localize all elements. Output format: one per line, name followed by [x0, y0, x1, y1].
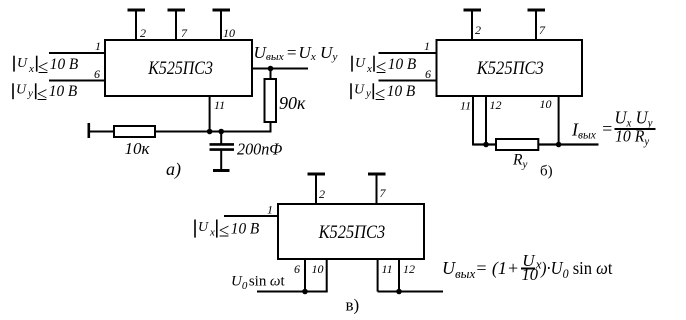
svg-text:1: 1 — [267, 203, 273, 217]
pin 1 input wire Ux (circuit в) — [224, 215, 278, 217]
svg-text:200пФ: 200пФ — [237, 139, 282, 158]
resistor R1 90к body (circuit a) — [265, 79, 277, 122]
svg-text:б): б) — [540, 164, 553, 180]
svg-text:2: 2 — [319, 187, 325, 201]
svg-text:К525ПС3: К525ПС3 — [318, 221, 386, 242]
svg-text:10 В: 10 В — [387, 83, 416, 100]
multiplier IC DA1 К525ПС3 body (circuit б) — [437, 40, 583, 96]
svg-text:90к: 90к — [279, 93, 306, 113]
svg-text:x: x — [28, 63, 34, 75]
svg-text:К525ПС3: К525ПС3 — [147, 57, 213, 79]
pin 7 supply terminal bar (circuit б) — [528, 9, 546, 12]
svg-text:6: 6 — [425, 67, 431, 81]
svg-text:≤: ≤ — [376, 57, 386, 78]
svg-text:6: 6 — [294, 262, 300, 276]
junction dot pin 10 node (circuit б) — [556, 142, 562, 148]
svg-text:10: 10 — [540, 97, 552, 111]
wire from feedback net down to capacitor C1 (circuit a) — [220, 132, 222, 145]
pin 2 lead (circuit в) — [315, 174, 317, 204]
pin 2 supply terminal bar (circuit в) — [308, 173, 326, 176]
input label |Uy| &#8804; 10 В (circuit a) — [13, 82, 78, 105]
pin 10 lead (circuit в) — [326, 260, 328, 292]
capacitor C1 top plate (circuit a) — [210, 143, 235, 146]
pin 2 lead (circuit б) — [471, 10, 473, 40]
bottom net wire pin11 to output (circuit б) — [473, 143, 599, 145]
pin 7 supply terminal bar (circuit в) — [368, 173, 386, 176]
svg-text:10 В: 10 В — [388, 56, 417, 73]
junction dot pin 12 node (circuit б) — [483, 142, 489, 148]
pin 10 lead (circuit б) — [558, 96, 560, 145]
svg-text:в): в) — [346, 296, 360, 315]
open terminal bar left of 10к (circuit a) — [88, 123, 91, 138]
svg-text:≤: ≤ — [38, 57, 48, 78]
multiplier IC DA1 К525ПС3 body (circuit a) — [105, 40, 252, 96]
wire from output node down to resistor 90к (circuit a) — [270, 69, 272, 80]
svg-text:7: 7 — [181, 26, 188, 40]
pin 2 lead (circuit a) — [135, 10, 137, 40]
svg-text:U: U — [355, 56, 366, 71]
svg-text:7: 7 — [539, 23, 546, 37]
svg-text:К525ПС3: К525ПС3 — [476, 57, 544, 78]
pin 1 input wire Ux (circuit б) — [379, 52, 438, 54]
pin 10 lead (circuit a) — [220, 10, 222, 40]
svg-text:11: 11 — [382, 262, 393, 276]
output wire node Uвых (circuit a) — [252, 68, 308, 70]
svg-text:Uвых=UxUy: Uвых=UxUy — [254, 43, 338, 63]
svg-text:U: U — [17, 56, 28, 71]
junction dot pin11/feedback net (circuit a) — [207, 129, 213, 135]
svg-text:10: 10 — [223, 26, 235, 40]
junction dot capacitor/feedback net (circuit a) — [218, 129, 224, 135]
svg-text:1: 1 — [95, 39, 101, 53]
svg-text:10к: 10к — [125, 139, 151, 158]
resistor Ry body (circuit б) — [496, 139, 538, 150]
svg-text:10 В: 10 В — [50, 56, 79, 73]
svg-text:10 В: 10 В — [49, 83, 78, 100]
input label |Ux| &#8804; 10 В (circuit б) — [352, 56, 417, 78]
resistor R2 10к body (circuit a) — [114, 126, 155, 137]
formula fraction bar (circuit б) — [615, 128, 656, 130]
wire from resistor 90к down to feedback net (circuit a) — [270, 122, 272, 133]
svg-text:7: 7 — [380, 186, 387, 200]
pin 12 lead (circuit в) — [398, 260, 400, 292]
multiplier IC DA1 К525ПС3 body (circuit в) — [278, 204, 424, 259]
svg-text:12: 12 — [490, 98, 502, 112]
svg-text:x: x — [366, 63, 372, 75]
svg-text:y: y — [365, 87, 371, 99]
ground terminal bar (circuit a) — [213, 169, 230, 172]
svg-text:x: x — [209, 226, 215, 238]
output wire net (circuit в) — [378, 291, 443, 293]
capacitor C1 bottom plate (circuit a) — [210, 148, 235, 151]
svg-text:10 В: 10 В — [231, 221, 260, 238]
svg-text:12: 12 — [403, 262, 415, 276]
svg-text:U: U — [354, 82, 365, 97]
pin 11 lead (circuit в) — [377, 260, 379, 292]
svg-text:6: 6 — [94, 67, 100, 81]
pin 10 supply terminal bar (circuit a) — [213, 9, 231, 12]
svg-text:10 Rу: 10 Rу — [615, 126, 649, 148]
input wire U0 sin wt net (circuit в) — [257, 291, 328, 293]
pin 2 supply terminal bar (circuit б) — [464, 9, 482, 12]
wire from capacitor down to ground (circuit a) — [220, 151, 222, 171]
pin 12 lead (circuit б) — [485, 96, 487, 145]
svg-text:U0sinωt: U0sinωt — [231, 274, 285, 292]
pin 6 input wire Uy (circuit б) — [379, 80, 438, 82]
input label |Uy| &#8804; 10 В (circuit б) — [351, 82, 416, 105]
svg-text:Rу: Rу — [512, 151, 527, 170]
pin 6 lead (circuit в) — [304, 260, 306, 292]
pin 7 supply terminal bar (circuit a) — [168, 9, 186, 12]
pin 6 input wire Uy (circuit a) — [49, 80, 106, 82]
input label |Ux| &#8804; 10 В (circuit в) — [195, 220, 260, 242]
feedback net horizontal wire (circuit a) — [88, 131, 272, 133]
svg-text:Iвых: Iвых — [571, 119, 597, 141]
input label |Ux| &#8804; 10 В (circuit a) — [14, 56, 79, 78]
svg-text:)·U0 sin ωt: )·U0 sin ωt — [540, 258, 613, 281]
junction dot output node (circuit a) — [268, 66, 274, 72]
svg-text:11: 11 — [214, 98, 225, 112]
svg-text:U: U — [198, 220, 209, 235]
junction dot pin 6 node (circuit в) — [302, 289, 308, 295]
pin 2 supply terminal bar (circuit a) — [128, 9, 146, 12]
svg-text:≤: ≤ — [375, 84, 385, 105]
pin 7 lead (circuit a) — [175, 10, 177, 40]
pin 11 lead (circuit a) — [209, 96, 211, 132]
pin 11 lead (circuit б) — [472, 96, 474, 146]
svg-text:11: 11 — [460, 99, 471, 113]
svg-text:10: 10 — [312, 262, 324, 276]
svg-text:y: y — [27, 87, 33, 99]
svg-text:а): а) — [166, 159, 181, 180]
svg-text:≤: ≤ — [219, 220, 229, 241]
pin 7 lead (circuit в) — [376, 174, 378, 204]
svg-text:U: U — [16, 82, 27, 97]
junction dot pin 12 node (circuit в) — [396, 289, 402, 295]
svg-text:=: = — [601, 119, 613, 139]
formula fraction bar (circuit в) — [521, 268, 535, 270]
svg-text:≤: ≤ — [37, 84, 47, 105]
svg-text:Uвых= (1+: Uвых= (1+ — [442, 258, 519, 281]
pin 1 input wire Ux (circuit a) — [49, 52, 106, 54]
svg-text:1: 1 — [424, 39, 430, 53]
pin 7 lead (circuit б) — [535, 10, 537, 40]
svg-text:2: 2 — [475, 23, 481, 37]
svg-text:2: 2 — [140, 26, 146, 40]
